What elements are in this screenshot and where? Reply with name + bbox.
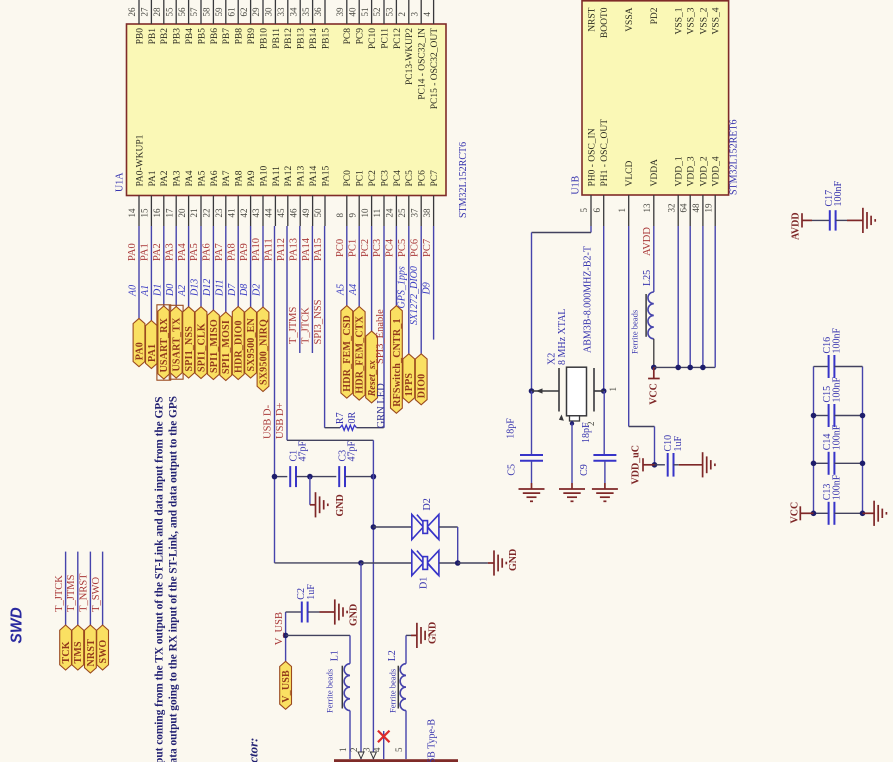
pin PB6 (58) top	[212, 0, 214, 24]
svg-text:PB13: PB13	[297, 28, 307, 49]
wire VCC cap bank left rail	[813, 367, 815, 514]
wire VLCD to VDD_uC node	[628, 226, 630, 427]
pin PB10 (29) top	[262, 0, 264, 24]
svg-text:VDD_uC: VDD_uC	[630, 445, 641, 484]
svg-text:PA9: PA9	[239, 243, 250, 261]
svg-text:PA13: PA13	[297, 165, 307, 186]
svg-text:19: 19	[703, 203, 713, 213]
svg-text:48: 48	[691, 203, 701, 213]
svg-text:5: 5	[394, 747, 404, 752]
wire	[262, 226, 264, 307]
svg-text:33: 33	[276, 7, 286, 17]
svg-text:1: 1	[338, 748, 348, 753]
svg-text:PC7: PC7	[430, 170, 440, 187]
power port VCC	[800, 512, 813, 514]
svg-text:SPI1_CLK: SPI1_CLK	[196, 323, 207, 372]
wire node D- to C1	[275, 476, 288, 478]
op-amp U1A body (STM32L152RCT6 part A)	[127, 24, 447, 196]
svg-text:2: 2	[397, 12, 407, 17]
svg-text:USB Connector:: USB Connector:	[246, 738, 261, 762]
junction	[371, 524, 377, 530]
port HDR_FEM_CTX	[353, 307, 365, 401]
svg-text:A5: A5	[335, 284, 346, 296]
port USART_TX	[170, 307, 182, 379]
wire L2 to USB pin 5	[405, 711, 407, 760]
wire	[358, 226, 360, 307]
ferrite bead L25	[648, 292, 654, 339]
svg-text:3: 3	[362, 747, 372, 752]
wire	[150, 226, 152, 321]
svg-text:58: 58	[202, 7, 212, 17]
svg-text:62: 62	[239, 8, 249, 17]
svg-text:ABM3B-8.000MHZ-B2-T: ABM3B-8.000MHZ-B2-T	[583, 246, 594, 353]
svg-text:PA5: PA5	[189, 243, 200, 261]
svg-text:2: 2	[349, 748, 359, 753]
svg-text:HDR_FEM_CSD: HDR_FEM_CSD	[342, 315, 353, 392]
wire to C10	[655, 464, 665, 466]
svg-text:STM32L152RET6: STM32L152RET6	[728, 119, 739, 195]
svg-text:PC2: PC2	[360, 239, 371, 257]
pin PB4 (56) top	[188, 0, 190, 24]
wire	[395, 226, 397, 306]
pin 2 arrow	[358, 752, 364, 759]
port Reset_sx	[366, 331, 378, 403]
svg-text:VSSA: VSSA	[625, 7, 635, 31]
svg-text:DIO0: DIO0	[417, 374, 428, 399]
svg-text:PC13-WKUP2: PC13-WKUP2	[405, 28, 415, 85]
svg-text:8: 8	[335, 213, 345, 218]
op-amp U1B body (STM32L152 part B)	[582, 1, 729, 195]
svg-text:PB1: PB1	[148, 28, 158, 45]
svg-text:PB11: PB11	[272, 28, 282, 49]
port V_USB	[280, 661, 292, 709]
svg-text:PA0: PA0	[127, 243, 138, 261]
wire VDD_4	[714, 226, 716, 367]
port SPI1_MISO	[208, 310, 220, 380]
svg-text:PH0 - OSC_IN: PH0 - OSC_IN	[587, 128, 597, 186]
resistor R7	[340, 425, 357, 430]
svg-text:V_USB: V_USB	[281, 670, 292, 703]
pin PB14 (35) top	[312, 0, 314, 24]
pin PB3 (55) top	[175, 0, 177, 24]
pin PC7 (38) bottom	[433, 196, 435, 227]
svg-text:C5: C5	[506, 464, 517, 476]
svg-text:17: 17	[164, 208, 174, 218]
svg-text:PB6: PB6	[210, 28, 220, 45]
pin PA8 (41) bottom	[237, 196, 239, 227]
wire	[371, 226, 373, 331]
svg-text:10: 10	[360, 208, 370, 218]
ferrite bead L2	[400, 664, 406, 711]
svg-text:4: 4	[422, 12, 432, 17]
pin PC4 (24) bottom	[395, 196, 397, 227]
pin PC9 (40) top	[358, 0, 360, 24]
ground	[531, 483, 533, 489]
wire C3 to D+	[345, 476, 373, 478]
wire T_JTCK from PA14	[311, 226, 313, 353]
svg-text:PA10: PA10	[251, 238, 262, 261]
pin PC11 (52) top	[383, 0, 385, 24]
svg-text:Ferrite beads: Ferrite beads	[629, 310, 639, 354]
wire	[212, 226, 214, 310]
junction	[811, 413, 817, 419]
port PA0	[133, 318, 145, 366]
wire	[188, 226, 190, 307]
no-connect X	[378, 731, 390, 743]
pin VDD_3 (64)	[689, 195, 691, 226]
VCC rail	[654, 366, 715, 368]
ferrite bead L1	[344, 664, 350, 711]
wire D- to USB pin 2 corner	[275, 562, 362, 564]
pin PB2 (28) top	[163, 0, 165, 24]
pin PC3 (11) bottom	[383, 196, 385, 227]
svg-text:PA7: PA7	[214, 243, 225, 261]
pin PA1 (15) bottom	[150, 196, 152, 227]
wire USB D+ from PA12	[286, 226, 288, 440]
svg-text:AVDD: AVDD	[791, 212, 802, 240]
junction	[652, 462, 658, 468]
wire C2 to gnd	[308, 611, 319, 613]
port NRST	[85, 625, 97, 673]
junction	[860, 413, 866, 419]
svg-text:PA11: PA11	[272, 166, 282, 187]
pin PB13 (34) top	[299, 0, 301, 24]
capacitor C15	[814, 415, 829, 417]
svg-text:100nF: 100nF	[831, 474, 842, 500]
svg-text:HDR_FEM_CTX: HDR_FEM_CTX	[355, 315, 366, 393]
svg-text:PA0-WKUP1: PA0-WKUP1	[135, 134, 145, 186]
capacitor C10	[668, 453, 674, 477]
wire	[408, 226, 410, 354]
svg-text:53: 53	[385, 7, 395, 17]
svg-text:A4: A4	[348, 284, 359, 296]
svg-text:18pF: 18pF	[581, 422, 592, 443]
pin PB8 (61) top	[237, 0, 239, 24]
pin PB9 (62) top	[250, 0, 252, 24]
port HDR_DIO0	[232, 307, 244, 380]
svg-text:PA2: PA2	[160, 170, 170, 186]
wire crystal gnd stub	[571, 421, 573, 424]
svg-text:PA1: PA1	[140, 243, 151, 261]
capacitor C9	[603, 391, 605, 455]
pin VDD_2 (48)	[702, 195, 704, 226]
pin PA5 (21) bottom	[200, 196, 202, 227]
wire VDDA pin13 down	[653, 226, 655, 292]
svg-text:PA2: PA2	[152, 243, 163, 261]
svg-text:NRST: NRST	[587, 7, 597, 31]
svg-text:D0: D0	[165, 284, 176, 297]
svg-text:Ferrite beads: Ferrite beads	[324, 669, 334, 713]
wire R7 to PC3	[357, 427, 384, 429]
wire PA15 to R7	[325, 427, 340, 429]
svg-text:16: 16	[152, 208, 162, 218]
svg-text:PC0: PC0	[343, 170, 353, 187]
pin PA11 (44) bottom	[274, 196, 276, 227]
svg-text:23: 23	[214, 208, 224, 218]
pin VDD_4 (19)	[714, 195, 716, 226]
capacitor C16	[814, 366, 829, 368]
pin PB0 (26) top	[138, 0, 140, 24]
gnd node junction	[307, 474, 313, 480]
svg-text:22: 22	[202, 209, 212, 218]
svg-text:1uF: 1uF	[673, 436, 684, 452]
svg-text:PH1 - OSC_OUT: PH1 - OSC_OUT	[600, 119, 610, 187]
svg-text:1PPS: 1PPS	[404, 373, 415, 397]
svg-text:PC15 - OSC32_OUT: PC15 - OSC32_OUT	[430, 28, 440, 109]
svg-text:PC3: PC3	[380, 170, 390, 187]
wire gnd stub	[309, 477, 311, 505]
wire VDD_1	[677, 226, 679, 367]
svg-text:T_JTCK: T_JTCK	[54, 575, 65, 612]
svg-text:PA6: PA6	[210, 170, 220, 186]
svg-text:PA12: PA12	[276, 238, 287, 261]
svg-text:USB D+: USB D+	[275, 402, 286, 439]
svg-text:SX9500_EN: SX9500_EN	[246, 317, 257, 371]
svg-text:PC10: PC10	[368, 28, 378, 49]
svg-text:PB2: PB2	[160, 28, 170, 45]
svg-text:PC4: PC4	[385, 238, 396, 257]
svg-text:T_JTMS: T_JTMS	[66, 574, 77, 612]
junction	[811, 461, 817, 467]
node D+ junction	[371, 474, 377, 480]
svg-text:26: 26	[127, 7, 137, 17]
svg-text:VSS_3: VSS_3	[687, 7, 697, 34]
svg-text:D8: D8	[239, 284, 250, 297]
svg-text:100nF: 100nF	[831, 424, 842, 450]
svg-text:PA9: PA9	[247, 170, 257, 186]
wire T_JTMS from PA13	[299, 226, 301, 353]
svg-text:37: 37	[409, 208, 419, 218]
svg-text:PC7: PC7	[422, 239, 433, 257]
wire	[138, 226, 140, 318]
wire V_USB vertical	[285, 612, 287, 661]
pin 3 arrow	[370, 752, 376, 759]
svg-text:VDDA: VDDA	[650, 159, 660, 187]
svg-text:T_NRST: T_NRST	[79, 573, 90, 612]
svg-text:30: 30	[264, 7, 274, 17]
svg-text:VCC: VCC	[648, 383, 659, 405]
wire pin5 to crystal	[590, 226, 592, 233]
wire VDD_3	[689, 226, 691, 367]
svg-text:PC2: PC2	[368, 170, 378, 187]
wire C9 to ground	[604, 461, 606, 483]
ground for shield	[417, 623, 429, 648]
svg-text:51: 51	[360, 8, 370, 17]
pin PC10 (51) top	[371, 0, 373, 24]
svg-text:59: 59	[214, 7, 224, 17]
capacitor C13	[814, 512, 829, 514]
svg-text:D1: D1	[152, 284, 163, 297]
pin PC15 - OSC32_OUT (4) top	[433, 0, 435, 24]
svg-text:D7: D7	[227, 283, 238, 297]
wire	[225, 226, 227, 312]
svg-text:34: 34	[288, 7, 298, 17]
svg-text:8 MHz XTAL: 8 MHz XTAL	[557, 309, 568, 365]
svg-text:VDD_2: VDD_2	[699, 156, 709, 186]
wire to D1	[361, 562, 412, 564]
svg-text:USART_TX: USART_TX	[172, 317, 183, 372]
svg-text:PB8: PB8	[235, 28, 245, 45]
svg-text:D2: D2	[422, 498, 433, 510]
wire	[250, 226, 252, 307]
svg-text:GRN LED: GRN LED	[376, 383, 387, 429]
junction	[601, 388, 607, 394]
svg-text:PC0: PC0	[335, 239, 346, 257]
svg-text:9: 9	[347, 213, 357, 218]
pin PC8 (39) top	[346, 0, 348, 24]
svg-text:GND: GND	[427, 622, 438, 644]
svg-text:HDR_DIO0: HDR_DIO0	[234, 320, 245, 373]
svg-text:PB3: PB3	[173, 28, 183, 45]
wire cap bank right rail	[862, 367, 864, 514]
wire	[175, 226, 177, 307]
capacitor C14	[814, 462, 829, 464]
port RFSwitch_CNTR_1	[391, 306, 403, 414]
port SX9500_EN	[245, 307, 257, 378]
port 1PPS	[403, 354, 415, 403]
svg-text:PB7: PB7	[222, 28, 232, 45]
power port VDD_uC	[643, 464, 655, 466]
svg-text:PB4: PB4	[185, 28, 195, 45]
svg-text:1: 1	[608, 387, 618, 392]
svg-text:6: 6	[592, 208, 602, 213]
svg-text:PB14: PB14	[309, 28, 319, 49]
svg-text:13: 13	[642, 203, 652, 213]
port SPI1_MOSI	[220, 312, 232, 381]
wire D+ down to USB pin 3	[372, 440, 374, 759]
svg-text:PC9: PC9	[356, 28, 366, 45]
svg-text:Serial input coming from the T: Serial input coming from the TX output o…	[154, 397, 166, 762]
svg-text:D12: D12	[202, 279, 213, 297]
port TMS	[72, 625, 84, 670]
svg-text:PC6: PC6	[418, 170, 428, 187]
wire bead to rail	[653, 339, 655, 368]
wire T_JTCK	[65, 552, 67, 625]
svg-text:5: 5	[579, 208, 589, 213]
pin PB7 (59) top	[225, 0, 227, 24]
svg-text:Serial data output going to th: Serial data output going to the RX input…	[168, 396, 180, 762]
svg-text:PC5: PC5	[397, 239, 408, 257]
svg-text:0R: 0R	[347, 412, 358, 424]
svg-text:PA14: PA14	[309, 165, 319, 186]
pin PA14 (49) bottom	[312, 196, 314, 227]
port SPI1_NSS	[183, 307, 195, 378]
svg-text:A1: A1	[140, 285, 151, 297]
pin PB11 (30) top	[274, 0, 276, 24]
svg-text:U1A: U1A	[115, 172, 126, 192]
svg-text:35: 35	[301, 7, 311, 17]
svg-text:RFSwitch_CNTR_1: RFSwitch_CNTR_1	[392, 318, 403, 407]
svg-text:PA8: PA8	[235, 170, 245, 186]
wire	[237, 226, 239, 307]
svg-text:USART_RX: USART_RX	[159, 317, 170, 372]
svg-text:42: 42	[239, 209, 249, 218]
svg-text:GND: GND	[349, 604, 360, 626]
svg-text:SPI1_NSS: SPI1_NSS	[184, 326, 195, 372]
pin PA3 (17) bottom	[175, 196, 177, 227]
port USART_TX highlight box	[169, 305, 183, 379]
svg-text:100nF: 100nF	[833, 181, 844, 207]
wire to C2	[286, 611, 302, 613]
svg-text:PC12: PC12	[393, 28, 403, 49]
pin PC1 (9) bottom	[358, 196, 360, 227]
svg-text:44: 44	[264, 208, 274, 218]
wire	[163, 226, 165, 306]
svg-text:47pF: 47pF	[346, 441, 357, 462]
wire T_SWO	[102, 552, 104, 625]
pin PA13 (46) bottom	[299, 196, 301, 227]
svg-text:PC3: PC3	[372, 239, 383, 257]
svg-text:SX9500_NIRQ: SX9500_NIRQ	[258, 319, 269, 385]
svg-text:1uF: 1uF	[306, 584, 317, 600]
svg-text:14: 14	[127, 208, 137, 218]
capacitor C5	[531, 391, 533, 455]
svg-text:T_JTMS: T_JTMS	[288, 307, 299, 345]
svg-text:PC1: PC1	[347, 239, 358, 257]
svg-text:A2: A2	[177, 285, 188, 297]
svg-text:VLCD: VLCD	[625, 161, 635, 187]
svg-text:PA15: PA15	[321, 165, 331, 186]
svg-text:1: 1	[617, 208, 627, 213]
pin PC5 (25) bottom	[408, 196, 410, 227]
wire T_NRST	[89, 552, 91, 625]
svg-text:27: 27	[140, 7, 150, 17]
svg-text:T_JTCK: T_JTCK	[301, 307, 312, 344]
svg-text:PB9: PB9	[247, 28, 257, 45]
wire gnd to L2	[406, 634, 411, 636]
pin PB5 (57) top	[200, 0, 202, 24]
wire to D2	[373, 526, 411, 528]
wire pin6 down	[603, 226, 605, 391]
svg-text:GND: GND	[335, 494, 346, 516]
junction	[860, 461, 866, 467]
diode D2	[412, 514, 439, 539]
wire AVDD to C17	[812, 219, 830, 221]
svg-text:64: 64	[678, 203, 688, 213]
svg-text:BOOT0: BOOT0	[600, 7, 610, 38]
junction	[358, 560, 364, 566]
port HDR_FEM_CSD	[341, 306, 353, 399]
svg-text:PA14: PA14	[301, 237, 312, 261]
ground	[604, 483, 606, 489]
svg-text:100nF: 100nF	[831, 377, 842, 403]
svg-text:49: 49	[301, 208, 311, 218]
capacitor C3	[339, 466, 345, 487]
svg-text:46: 46	[288, 208, 298, 218]
svg-text:100nF: 100nF	[831, 328, 842, 354]
svg-text:SPI3_NSS: SPI3_NSS	[313, 299, 324, 344]
wire V_USB to L1	[286, 634, 350, 636]
svg-text:41: 41	[226, 209, 236, 218]
junction	[283, 633, 289, 639]
svg-text:A0: A0	[128, 285, 139, 297]
wire	[346, 226, 348, 306]
svg-text:PA12: PA12	[284, 165, 294, 186]
wire T_JTMS	[77, 552, 79, 625]
node D- junction	[272, 474, 278, 480]
svg-text:TMS: TMS	[73, 641, 84, 664]
svg-text:24: 24	[385, 208, 395, 218]
svg-text:D2: D2	[252, 284, 263, 297]
svg-text:25: 25	[397, 208, 407, 218]
svg-text:47pF: 47pF	[297, 441, 308, 462]
pin PB12 (33) top	[287, 0, 289, 24]
pin PC13-WKUP2 (2) top	[408, 0, 410, 24]
svg-text:V_USB: V_USB	[274, 612, 285, 645]
svg-text:52: 52	[372, 8, 382, 17]
svg-text:PB12: PB12	[284, 28, 294, 49]
ground	[310, 504, 316, 506]
